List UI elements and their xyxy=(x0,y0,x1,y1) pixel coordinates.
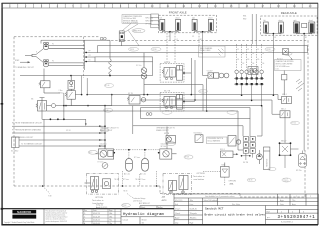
svg-text:T 08: T 08 xyxy=(48,195,51,197)
svg-text:PT03: PT03 xyxy=(122,205,126,207)
terminal strip row 1 xyxy=(236,77,263,79)
line filter F1 xyxy=(141,53,147,95)
rear brake cylinder RL1 xyxy=(263,19,268,33)
leader lines to note xyxy=(122,23,139,45)
pump unit dashed partition xyxy=(83,37,85,78)
Sandvik logo box xyxy=(12,210,36,219)
svg-text:81: 81 xyxy=(237,49,239,51)
svg-text:82: 82 xyxy=(242,53,244,55)
svg-text:OPTION: OPTION xyxy=(197,173,205,175)
hose bundle A xyxy=(98,46,308,53)
front brake cylinder FL2 xyxy=(175,18,180,31)
bundle C oval label xyxy=(162,110,172,114)
articulation hinge circles xyxy=(100,37,106,40)
svg-text:N13 p*: N13 p* xyxy=(281,141,287,143)
option dash risers xyxy=(123,171,157,186)
svg-text:N16: N16 xyxy=(222,164,225,166)
tank line nodes xyxy=(70,75,111,77)
svg-text:N15.2: N15.2 xyxy=(281,108,286,110)
svg-text:BLP N2FLGT: BLP N2FLGT xyxy=(139,203,151,205)
n16 dash link h xyxy=(203,171,221,173)
solenoid block Y1 xyxy=(208,73,229,78)
svg-text:TB 08: TB 08 xyxy=(135,179,139,181)
front axle dashed box xyxy=(159,15,217,33)
svg-text:PF: PF xyxy=(89,51,91,53)
svg-text:JMa: JMa xyxy=(190,200,193,202)
revision table tiny text xyxy=(84,204,112,225)
bundle B tail xyxy=(152,62,154,76)
svg-text:A2 1.0L: A2 1.0L xyxy=(140,172,146,175)
svg-text:02-07-19: 02-07-19 xyxy=(93,213,100,215)
rear axle feed verticals xyxy=(252,14,256,44)
svg-text:BT08: BT08 xyxy=(185,157,189,159)
front brake cylinder FR1 xyxy=(192,17,197,31)
front brake cylinder FR2 xyxy=(208,18,213,31)
front axle piping xyxy=(162,31,211,41)
rail nodes left xyxy=(81,94,113,96)
svg-text:Rev. Note: Rev. Note xyxy=(232,203,240,206)
suspension cylinder xyxy=(264,147,270,170)
svg-text:BT 08: BT 08 xyxy=(105,85,109,87)
hose bundle C xyxy=(141,108,250,119)
svg-text:01-11-28: 01-11-28 xyxy=(93,216,100,218)
svg-text:3+55203947+1: 3+55203947+1 xyxy=(278,216,316,220)
terminal strip rails xyxy=(234,74,264,106)
front axle port labels xyxy=(146,17,154,25)
svg-text:85: 85 xyxy=(257,49,259,51)
svg-text:L1: L1 xyxy=(168,36,170,38)
svg-text:T2 TO PARKING CIRCUIT: T2 TO PARKING CIRCUIT xyxy=(21,142,43,145)
front feed labels xyxy=(168,36,202,41)
lubricate diagonal xyxy=(127,194,133,199)
rear aba valve xyxy=(302,23,307,27)
pump piping top line xyxy=(41,40,110,70)
brake pilot line xyxy=(42,104,112,120)
option right text xyxy=(193,173,205,181)
N1.2 text xyxy=(161,143,169,149)
svg-text:B2: B2 xyxy=(305,37,307,39)
rear axle junction dots xyxy=(273,33,305,35)
svg-text:BT 5mm: BT 5mm xyxy=(140,179,147,181)
svg-text:B6: B6 xyxy=(262,63,264,65)
towing valve N15.2 xyxy=(280,111,290,118)
svg-text:wheel: wheel xyxy=(175,18,180,20)
note box mid xyxy=(207,137,228,144)
svg-text:TO BRAKING CIRCUIT: TO BRAKING CIRCUIT xyxy=(15,66,35,69)
rear axle port labels xyxy=(243,15,246,20)
pressure switch S12 xyxy=(195,134,203,142)
drain risers xyxy=(75,76,87,95)
title block top heavy line left part xyxy=(2,208,174,210)
svg-text:JMa: JMa xyxy=(109,216,112,218)
check valve V2 xyxy=(68,76,74,90)
svg-text:84: 84 xyxy=(252,53,254,55)
svg-text:PR16: PR16 xyxy=(267,49,271,51)
pump output lines xyxy=(85,52,98,61)
top border line xyxy=(1,2,318,5)
svg-text:FRONT AXLE: FRONT AXLE xyxy=(169,10,187,14)
svg-text:5 bar: 5 bar xyxy=(200,52,204,55)
svg-text:Date: Date xyxy=(280,203,284,206)
svg-text:front brakes: front brakes xyxy=(93,202,104,205)
accumulator A1 xyxy=(126,158,133,171)
towing valve N15.1 xyxy=(280,97,292,104)
rear brake valve assembly N6.2 xyxy=(160,92,184,111)
customer and title text xyxy=(205,206,266,216)
svg-text:125bar: 125bar xyxy=(59,92,65,95)
drain arrowhead xyxy=(85,123,87,126)
oval label right xyxy=(184,155,193,159)
svg-text:BT 12: BT 12 xyxy=(200,91,204,93)
accumulator tap dashed line xyxy=(114,149,160,151)
svg-text:L2: L2 xyxy=(176,39,178,41)
hand pump N12 xyxy=(256,154,262,164)
svg-text:R2: R2 xyxy=(200,39,202,41)
valve N14 xyxy=(228,136,241,147)
bundle A labels xyxy=(129,47,276,51)
svg-text:S12 65bar: S12 65bar xyxy=(194,133,203,135)
svg-text:BT 5mm: BT 5mm xyxy=(123,179,130,181)
front brake actuator xyxy=(177,66,183,81)
rear brake cylinder RR1 xyxy=(293,19,299,33)
small block right of note xyxy=(151,14,159,28)
four way valve corner dots xyxy=(279,142,292,156)
accumulator A2 xyxy=(142,158,149,171)
svg-text:Hydr: Hydr xyxy=(190,222,194,224)
svg-text:LS: LS xyxy=(89,60,91,62)
ruler ticks xyxy=(2,4,318,8)
svg-text:REAR AXLE: REAR AXLE xyxy=(281,11,297,15)
mid note texts xyxy=(100,126,176,131)
main pressure rail 3 xyxy=(64,105,262,107)
right line nodes xyxy=(241,94,274,106)
svg-text:Brake circuit with brake test: Brake circuit with brake test valves xyxy=(205,212,266,216)
tank line xyxy=(20,69,153,76)
parking circuit lines xyxy=(12,106,105,146)
front brake cylinder FL1 xyxy=(160,17,165,31)
drain corner line xyxy=(42,93,86,125)
svg-text:Gas-bubbles has 2 pneumatic va: Gas-bubbles has 2 pneumatic valves xyxy=(205,195,235,198)
svg-text:4073: 4073 xyxy=(162,200,168,202)
option right box xyxy=(163,174,192,195)
svg-text:100+5bar: 100+5bar xyxy=(100,143,108,146)
left edge small marks xyxy=(1,103,4,210)
svg-text:Sandvik MCT: Sandvik MCT xyxy=(205,206,224,210)
svg-text:TKo: TKo xyxy=(292,200,295,202)
svg-text:01-06-12: 01-06-12 xyxy=(93,220,100,222)
grid tails xyxy=(242,153,253,160)
svg-text:B1: B1 xyxy=(237,59,239,61)
feed risers to brake valves xyxy=(105,127,167,149)
svg-text:Edit: Edit xyxy=(175,203,179,206)
relief valve N3a xyxy=(39,76,60,93)
note oval xyxy=(283,52,292,55)
svg-text:S13.1: S13.1 xyxy=(220,149,225,151)
brake valve N1.1 xyxy=(95,149,114,159)
svg-text:with NLGI-2: with NLGI-2 xyxy=(133,199,142,202)
svg-text:Date: Date xyxy=(93,209,97,212)
rear axle piping xyxy=(266,33,312,44)
svg-text:Circuit: Circuit xyxy=(123,218,129,221)
rear axle dashed box xyxy=(261,16,318,35)
svg-text:Appr: Appr xyxy=(280,199,284,202)
svg-text:Sign: Sign xyxy=(109,210,112,212)
circuit sub cell xyxy=(123,206,164,224)
connector X1 xyxy=(12,137,20,148)
test valve S13 xyxy=(221,151,239,158)
tap nodes xyxy=(128,149,146,151)
mid distribution block xyxy=(127,96,146,105)
svg-text:wheel: wheel xyxy=(208,18,213,20)
drain hatch marks xyxy=(296,79,304,91)
N10 component xyxy=(282,71,287,96)
svg-text:R1: R1 xyxy=(192,36,194,38)
svg-text:00-09-04: 00-09-04 xyxy=(93,223,100,225)
mid cluster valve N7 xyxy=(166,136,176,144)
bt labels below xyxy=(123,179,146,181)
svg-text:TB 08: TB 08 xyxy=(114,179,118,181)
svg-text:RESERVE: RESERVE xyxy=(267,158,269,167)
measuring point oval xyxy=(132,29,145,33)
svg-text:83: 83 xyxy=(247,49,249,51)
svg-text:Rev: Rev xyxy=(84,210,87,212)
svg-text:00-08-30: 00-08-30 xyxy=(190,208,197,210)
top ruler band line xyxy=(2,7,318,9)
svg-text:Date: Date xyxy=(190,203,194,206)
option n16 dash link xyxy=(224,177,226,186)
long vertical right line xyxy=(303,44,305,151)
svg-text:S+55203947-1: S+55203947-1 xyxy=(281,221,293,223)
pressure gauge M1 xyxy=(102,163,108,169)
svg-text:X4 TB: X4 TB xyxy=(243,162,249,164)
hose id labels xyxy=(237,49,264,65)
terminal grid X4 xyxy=(243,137,255,154)
oval texts xyxy=(104,85,109,112)
svg-text:P2: P2 xyxy=(52,61,54,63)
svg-text:MF1 G1/4: MF1 G1/4 xyxy=(146,17,154,19)
svg-text:86: 86 xyxy=(262,53,264,55)
sheet numbers row xyxy=(267,211,306,213)
upper table row texts xyxy=(175,195,311,206)
svg-text:P1 PRESSURE AFTER CHARGING: P1 PRESSURE AFTER CHARGING xyxy=(12,128,42,131)
rail nodes xyxy=(147,94,208,112)
svg-text:TKo: TKo xyxy=(109,220,112,222)
scatter label oval a xyxy=(199,90,208,94)
quick couplings row xyxy=(235,70,264,74)
suction stub arrow xyxy=(20,56,30,64)
svg-text:B4: B4 xyxy=(252,63,254,65)
pedal valve N5 xyxy=(38,98,47,111)
svg-text:TB 08: TB 08 xyxy=(248,180,252,182)
terminal grid dots xyxy=(241,138,254,157)
note block top center xyxy=(122,15,151,25)
N1.2 node xyxy=(158,152,160,154)
pt oval xyxy=(122,204,131,208)
rear brake cylinder RL2 xyxy=(279,20,284,33)
svg-text:RB2: RB2 xyxy=(243,19,246,21)
approval cells text xyxy=(175,208,197,224)
svg-text:0.5 L: 0.5 L xyxy=(276,68,280,70)
scatter label oval b xyxy=(291,121,300,125)
N1.1 node xyxy=(114,152,116,154)
suction hose coil xyxy=(109,59,112,74)
four way valve N13 xyxy=(280,143,291,155)
valve N16 xyxy=(221,163,230,178)
left border heavy line xyxy=(1,3,2,225)
svg-text:Test valve in: Test valve in xyxy=(193,175,205,178)
svg-text:Appr: Appr xyxy=(292,203,296,206)
main pressure rail 4 xyxy=(47,110,238,112)
front axle feed dashes xyxy=(167,33,199,63)
svg-text:by/for: by/for xyxy=(158,206,163,209)
front axle junction dots xyxy=(169,31,203,33)
svg-text:SANDVIK: SANDVIK xyxy=(17,210,31,214)
svg-text:X1 GE12: X1 GE12 xyxy=(11,151,18,153)
pilot line nodes xyxy=(65,105,106,107)
svg-text:B3: B3 xyxy=(247,59,249,61)
unloader valve V3 xyxy=(65,89,75,105)
svg-text:Y1 24V: Y1 24V xyxy=(207,71,214,73)
svg-text:OPTION: OPTION xyxy=(95,197,103,199)
output port labels xyxy=(89,51,92,62)
svg-text:Dep: Dep xyxy=(175,222,178,224)
N1.1 oval label xyxy=(88,150,97,154)
pump P2 xyxy=(43,60,84,67)
mid distribution lines xyxy=(133,106,250,136)
svg-text:Test valve in: Test valve in xyxy=(92,199,104,202)
svg-text:A1 1.0L: A1 1.0L xyxy=(124,172,130,175)
note block right xyxy=(275,60,302,71)
suction manifold xyxy=(30,49,43,63)
b1 oval label xyxy=(100,128,109,132)
pump output nodes xyxy=(85,52,87,63)
svg-text:B2: B2 xyxy=(242,63,244,65)
svg-text:P1: P1 xyxy=(52,43,54,45)
hose bundle B xyxy=(95,57,153,62)
svg-text:2: 2 xyxy=(310,196,311,198)
bundle C oval label 2 xyxy=(227,110,237,114)
option aba text xyxy=(229,181,237,186)
option left box xyxy=(85,173,119,194)
return filter xyxy=(299,154,307,168)
rail risers xyxy=(144,40,281,150)
parking line nodes xyxy=(104,125,106,146)
svg-text:PF16: PF16 xyxy=(130,49,134,51)
sheet size label A3 xyxy=(162,195,168,202)
svg-text:rear brakes: rear brakes xyxy=(194,178,205,181)
riser from rail1 xyxy=(111,95,113,106)
scatter label oval d xyxy=(282,178,291,182)
svg-text:N15.1: N15.1 xyxy=(282,94,287,96)
relief block terminal xyxy=(248,67,258,75)
pump labels xyxy=(36,43,54,62)
svg-text:SP 100: SP 100 xyxy=(100,146,106,148)
svg-text:0.5-0.9: 0.5-0.9 xyxy=(283,179,288,181)
N1.2 oval label xyxy=(166,142,175,146)
drain nodes xyxy=(50,105,65,120)
svg-text:Ref: Ref xyxy=(267,211,271,213)
svg-text:JMakela: JMakela xyxy=(190,218,197,220)
rear brake actuator xyxy=(177,94,183,109)
svg-text:RB1: RB1 xyxy=(243,15,246,17)
main pressure rail 1 xyxy=(87,94,278,96)
svg-text:wheel: wheel xyxy=(309,20,314,22)
svg-text:N6.2 TB: N6.2 TB xyxy=(164,91,171,93)
pedal to rail riser xyxy=(44,119,105,186)
svg-text:Repl.: Repl. xyxy=(141,207,146,209)
actuator link 2 xyxy=(184,101,195,103)
svg-text:TB 08: TB 08 xyxy=(123,191,127,193)
main pressure rail 2 xyxy=(140,99,272,101)
svg-text:1: 1 xyxy=(296,196,297,198)
title block outer table right part xyxy=(174,194,318,224)
svg-text:Drawn: Drawn xyxy=(175,208,180,210)
scatter label text d xyxy=(283,179,289,183)
svg-text:BT 10: BT 10 xyxy=(292,123,296,125)
svg-text:Hydraulic diagram: Hydraulic diagram xyxy=(123,212,164,217)
svg-text:BT 5mm: BT 5mm xyxy=(134,157,141,159)
rear brake cylinder RR2 xyxy=(309,20,315,33)
lubricate note xyxy=(133,197,145,202)
svg-text:p.n.: p.n. xyxy=(267,217,271,219)
rear feed labels xyxy=(274,37,307,39)
note box N4 xyxy=(199,46,226,57)
svg-text:Check: Check xyxy=(175,213,180,215)
terminal strip row 2 xyxy=(236,83,263,85)
svg-text:F2 25u: F2 25u xyxy=(296,170,302,172)
lower link lines xyxy=(259,118,302,168)
clouds small text xyxy=(114,179,139,192)
test point center square xyxy=(121,35,123,38)
parking circuit labels xyxy=(12,121,43,145)
pedal valve spring xyxy=(36,104,38,108)
front brake valve assembly N6.1 xyxy=(160,64,184,83)
actuator node 2 xyxy=(183,101,185,103)
filter node xyxy=(143,94,145,96)
svg-text:Appd: Appd xyxy=(175,217,179,220)
svg-text:wheel: wheel xyxy=(279,20,284,22)
svg-text:Valve N16 added: Valve N16 added xyxy=(204,200,218,202)
N1.1 text xyxy=(100,143,108,149)
svg-text:Appd 02-07-19: Appd 02-07-19 xyxy=(96,206,107,209)
parking line arrowheads xyxy=(99,125,103,147)
svg-text:1/1: 1/1 xyxy=(142,223,145,225)
label ovals mid xyxy=(103,84,113,113)
check valve DBV xyxy=(283,49,289,55)
disclaimer text block xyxy=(46,209,68,223)
svg-text:PR16: PR16 xyxy=(153,49,157,51)
accumulator risers xyxy=(129,150,145,159)
bundle C hinge circles xyxy=(146,113,152,116)
actuator node xyxy=(183,72,185,74)
rear feed dashed columns xyxy=(237,44,262,70)
svg-text:JMa: JMa xyxy=(109,213,112,215)
machine boundary dashed outline xyxy=(14,37,308,197)
svg-text:02-07-19: 02-07-19 xyxy=(175,200,182,202)
bundle A label texts xyxy=(130,49,271,51)
boundary nodes xyxy=(42,185,158,187)
svg-text:PRESSURE SWITCH: PRESSURE SWITCH xyxy=(208,138,224,140)
note leader arrow xyxy=(288,55,293,60)
svg-text:TKo: TKo xyxy=(109,223,112,225)
svg-text:B5: B5 xyxy=(257,59,259,61)
revision table xyxy=(83,209,121,225)
svg-text:Sheet: Sheet xyxy=(142,218,147,221)
pump P1 xyxy=(43,43,84,50)
ruler numbers xyxy=(9,5,312,8)
option left text xyxy=(92,197,104,205)
bottom border heavy line xyxy=(1,224,318,226)
